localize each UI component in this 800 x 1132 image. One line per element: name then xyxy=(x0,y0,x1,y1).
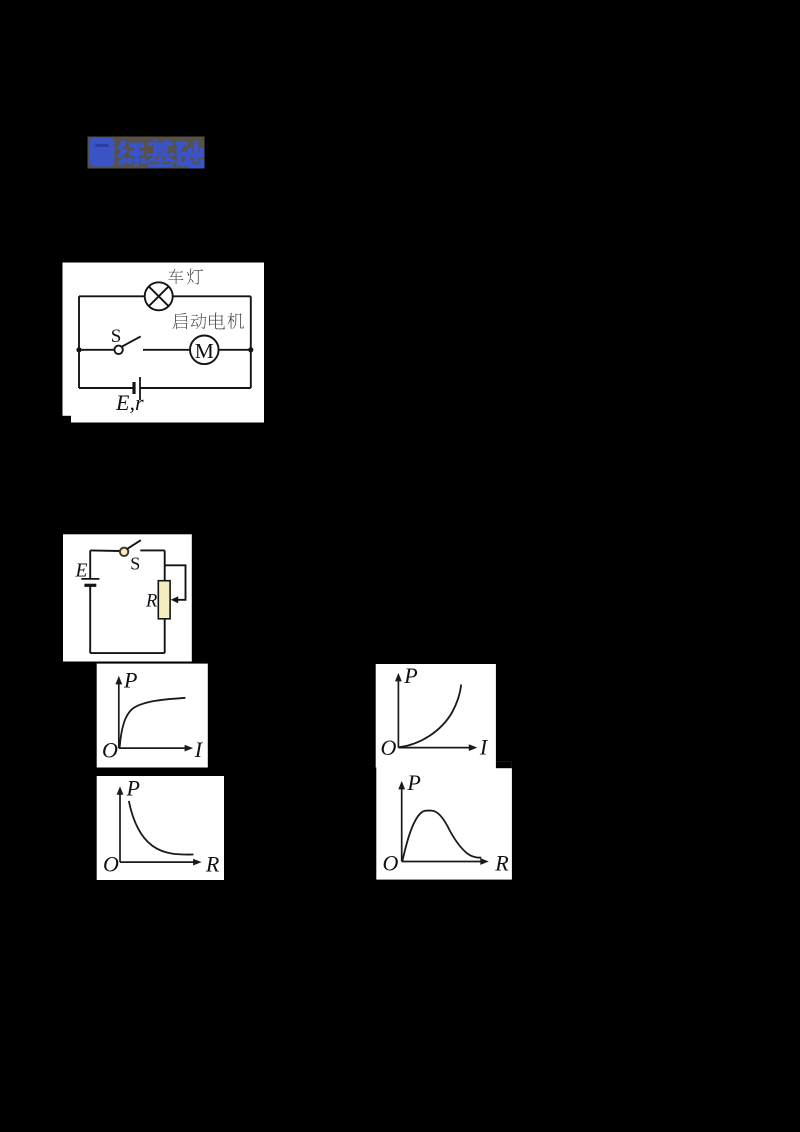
header char 1 xyxy=(119,141,144,166)
graph C (P vs R decreasing) vertical axis P xyxy=(119,792,121,862)
graph panel C (P vs R decreasing) xyxy=(97,776,224,880)
svg-text:O: O xyxy=(381,735,397,760)
lamp 车灯 (circle with X) xyxy=(145,282,173,310)
graph A (P vs I concave) vertical axis P xyxy=(118,682,120,748)
wire: left rail upper xyxy=(89,550,91,579)
graph panel D (P vs R peaked) xyxy=(376,761,512,879)
wire: right rail xyxy=(164,550,166,653)
svg-text:R: R xyxy=(494,851,509,876)
wire: slider branch horizontal top xyxy=(165,565,186,600)
graph D (P vs R peaked) horizontal axis arrowhead xyxy=(480,858,489,865)
graph B (P vs I convex) horizontal axis arrowhead xyxy=(469,744,478,751)
graph B (P vs I convex) vertical axis arrowhead xyxy=(395,673,402,682)
label 启动电机 char 启 xyxy=(172,313,187,329)
graph A (P vs I concave) vertical axis arrowhead xyxy=(115,676,122,685)
svg-text:R: R xyxy=(205,851,220,876)
svg-text:E: E xyxy=(75,561,88,582)
black notch at panel 1 bottom-left corner xyxy=(63,416,72,423)
svg-text:O: O xyxy=(103,852,119,877)
graph D (P vs R peaked) vertical axis P xyxy=(401,787,403,862)
wire: motor to right rail xyxy=(219,349,251,351)
wire: right rail xyxy=(250,296,252,388)
battery E long plate xyxy=(81,578,99,580)
label 启动电机 char 电 xyxy=(209,313,225,330)
wire: bottom branch right xyxy=(140,387,251,389)
label 启动电机 char 机 xyxy=(227,313,243,329)
switch S contact (yellow) xyxy=(120,548,128,556)
figure panel: battery-rheostat circuit xyxy=(63,534,192,661)
figure panel: car-lamp/starter circuit xyxy=(63,263,265,423)
wire: left rail xyxy=(78,296,80,388)
svg-text:P: P xyxy=(126,775,140,800)
svg-text:P: P xyxy=(403,663,417,688)
wire: top side left xyxy=(90,549,120,552)
graph C (P vs R decreasing) curve xyxy=(129,801,194,855)
header blue icon xyxy=(90,138,115,167)
node: left junction xyxy=(76,347,81,352)
graph C (P vs R decreasing) horizontal axis xyxy=(120,861,196,863)
label 车灯 char 车 xyxy=(168,269,183,284)
battery E,r short plate xyxy=(132,382,135,394)
graph A (P vs I concave) curve xyxy=(120,698,186,748)
svg-text:S: S xyxy=(111,326,122,347)
graph panel B (P vs I convex) xyxy=(376,664,496,767)
graph C (P vs R decreasing) horizontal axis arrowhead xyxy=(193,859,202,866)
graph B (P vs I convex) curve xyxy=(399,685,461,748)
svg-text:R: R xyxy=(145,591,157,611)
battery E,r long plate xyxy=(139,377,141,400)
rheostat R body xyxy=(158,581,170,619)
svg-text:O: O xyxy=(383,850,399,875)
wire: top side right xyxy=(140,549,164,551)
graph B (P vs I convex) vertical axis P xyxy=(397,679,399,748)
graph D (P vs R peaked) horizontal axis xyxy=(402,861,483,863)
switch S lever xyxy=(121,336,141,347)
node: right junction xyxy=(248,347,253,352)
graph panel A (P vs I concave) xyxy=(97,664,208,768)
graph A (P vs I concave) horizontal axis arrowhead xyxy=(185,745,194,752)
wire: left rail lower xyxy=(89,585,91,653)
graph D (P vs R peaked) vertical axis arrowhead xyxy=(398,781,405,790)
graph A (P vs I concave) horizontal axis xyxy=(119,747,187,749)
graph D (P vs R peaked) curve xyxy=(402,811,481,862)
svg-text:E,r: E,r xyxy=(115,390,144,415)
motor M circle xyxy=(190,336,219,365)
black notch over panel D (P vs R peaked) xyxy=(496,761,512,768)
switch S contact circle xyxy=(114,346,122,354)
svg-text:O: O xyxy=(102,738,118,763)
switch S lever xyxy=(127,540,141,549)
svg-text:P: P xyxy=(123,668,137,693)
wire: top branch left segment xyxy=(79,295,145,297)
wire: switch to motor xyxy=(143,349,190,351)
label 车灯 char 灯 xyxy=(187,269,203,285)
header highlight bar xyxy=(88,137,205,169)
svg-text:M: M xyxy=(195,339,214,363)
wire: bottom branch left xyxy=(79,387,134,389)
svg-text:S: S xyxy=(130,553,140,573)
wire: middle branch to switch xyxy=(79,349,114,351)
graph B (P vs I convex) horizontal axis xyxy=(398,747,471,749)
graph C (P vs R decreasing) vertical axis arrowhead xyxy=(117,786,124,795)
wire: bottom side xyxy=(90,652,165,654)
battery E short plate xyxy=(84,584,96,587)
header char 3 xyxy=(176,141,202,166)
label 启动电机 char 动 xyxy=(191,313,207,329)
wire: top branch right segment xyxy=(173,295,251,297)
slider arrowhead xyxy=(171,596,179,603)
svg-text:P: P xyxy=(406,770,420,795)
header char 2 xyxy=(147,140,174,166)
